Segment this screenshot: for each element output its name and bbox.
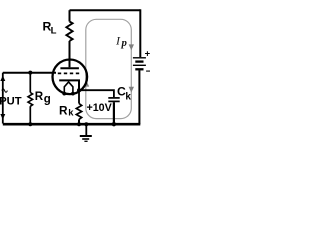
svg-text:R: R: [59, 103, 68, 117]
grid (dashed): [58, 72, 80, 74]
svg-text:R: R: [35, 90, 44, 103]
input sine squiggle: [2, 89, 8, 92]
svg-text:p: p: [121, 37, 128, 49]
battery plate 3 long: [133, 64, 146, 66]
current arrow up on left side of loop: [84, 81, 89, 87]
current arrow Ip down on right side of loop: [129, 44, 134, 50]
wire Rg bottom: [29, 106, 31, 124]
svg-text:k: k: [68, 107, 74, 118]
current loop Ip (gray rounded path): [86, 19, 132, 118]
heater pin dot right: [71, 92, 75, 96]
junction dot Rg bus: [28, 122, 32, 126]
capacitor Ck bottom plate: [108, 100, 119, 102]
junction dot grid/Rg: [28, 71, 32, 75]
heater filament: [64, 82, 73, 93]
plate bar: [60, 67, 79, 69]
ground bus (bottom): [3, 123, 141, 126]
input up arrow: [0, 76, 5, 82]
svg-text:g: g: [44, 93, 51, 105]
battery plate 4 short thick: [135, 68, 143, 70]
triode V1 envelope: [53, 60, 88, 95]
resistor Rg: [28, 93, 33, 107]
wire cathode to Rk: [78, 90, 80, 103]
current arrow down lower right side of loop: [129, 87, 134, 93]
wire RL bottom to tube plate: [69, 41, 71, 67]
wire RL top lead: [69, 10, 71, 21]
svg-text:PUT: PUT: [0, 96, 22, 108]
capacitor Ck top plate: [108, 97, 119, 99]
junction dot ground stem: [84, 122, 88, 126]
wire Rg top: [29, 73, 31, 93]
grid wire from input to tube: [3, 72, 56, 74]
svg-text:+10V: +10V: [87, 102, 113, 114]
ground symbol stem: [85, 124, 87, 135]
junction dot cathode node: [77, 88, 81, 92]
cathode bar and right lead: [59, 80, 79, 90]
heater pin dot left: [62, 92, 66, 96]
wire battery bottom to bus: [138, 70, 140, 123]
junction dot Ck bus: [112, 122, 116, 126]
battery plate 2 short thick: [135, 60, 143, 62]
resistor Rk: [76, 104, 81, 120]
wire cathode node to Ck: [79, 90, 114, 97]
wire top bus from RL top to battery: [70, 9, 141, 11]
battery Ebb plate 1 long: [133, 57, 146, 59]
ground bar 1: [80, 135, 92, 137]
svg-text:L: L: [51, 26, 57, 37]
input left vertical wire: [2, 73, 4, 124]
wire right vertical to battery +: [139, 9, 141, 57]
svg-text:−: −: [146, 67, 150, 78]
ground bar 2: [82, 138, 89, 140]
wire Rk bottom: [78, 119, 80, 124]
wire Ck bottom: [113, 102, 115, 124]
svg-text:I: I: [115, 34, 121, 48]
svg-text:+: +: [145, 48, 150, 59]
ground bar 3: [84, 140, 87, 142]
resistor RL: [66, 22, 72, 41]
input down arrow: [0, 114, 5, 120]
svg-text:k: k: [125, 92, 131, 103]
